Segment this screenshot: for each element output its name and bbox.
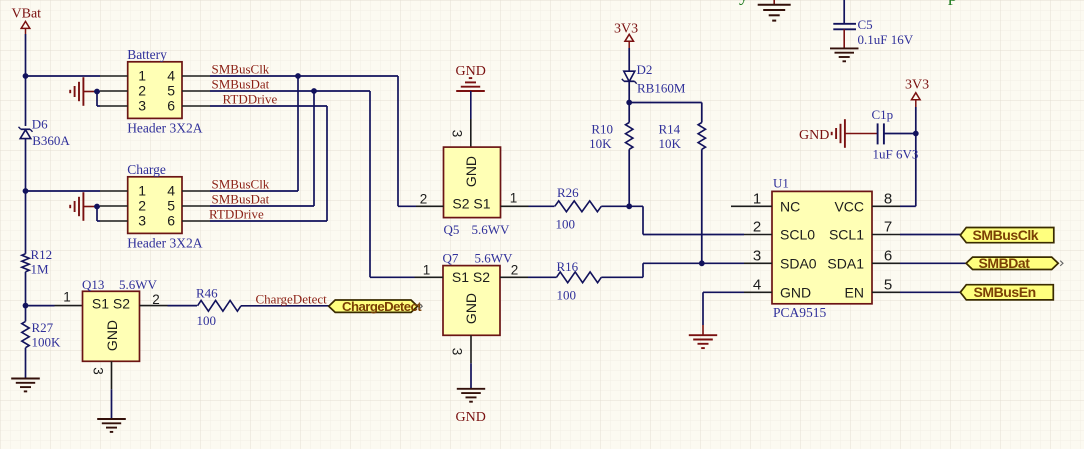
svg-text:R26: R26: [557, 185, 579, 200]
svg-text:8: 8: [884, 191, 892, 208]
svg-text:100: 100: [197, 313, 217, 328]
svg-text:100: 100: [556, 217, 576, 232]
wire R10 to R26 line: [628, 149, 630, 206]
junction rail/Q13: [23, 303, 29, 309]
resistor R27 100K: [22, 320, 61, 350]
svg-text:PCA9515: PCA9515: [773, 305, 827, 320]
wire gnd to Charge pin3: [97, 207, 100, 222]
wire C5 to ground: [843, 29, 845, 48]
svg-text:SMBusClk: SMBusClk: [973, 227, 1039, 243]
port ChargeDetect: [329, 299, 423, 314]
svg-text:5: 5: [167, 83, 175, 99]
svg-text:3: 3: [753, 248, 761, 265]
U1 pin1 stub (NC): [731, 205, 772, 207]
svg-text:5.6WV: 5.6WV: [475, 251, 514, 266]
svg-text:2: 2: [138, 83, 146, 99]
svg-text:EN: EN: [845, 284, 864, 300]
svg-text:1: 1: [423, 263, 431, 278]
resistor R12 1M: [22, 247, 52, 277]
junction rail/Battery: [23, 73, 29, 79]
svg-text:2: 2: [753, 219, 761, 236]
svg-text:R27: R27: [32, 320, 54, 335]
wire R46 to port: [241, 305, 329, 307]
svg-text:3: 3: [450, 348, 465, 356]
svg-text:R46: R46: [196, 286, 218, 301]
svg-text:GND: GND: [463, 156, 479, 187]
junction SMBusDat branch: [311, 88, 317, 94]
U1 pin6 stub: [872, 262, 900, 264]
wire VBat to Battery pin1: [26, 75, 101, 77]
resistor R26 100: [555, 185, 602, 232]
ground symbol at Charge pin2/3: [70, 192, 94, 221]
svg-text:C5: C5: [858, 17, 873, 32]
ground under R27: [11, 379, 40, 392]
svg-text:2: 2: [420, 192, 428, 207]
svg-text:ChargeDetect: ChargeDetect: [342, 299, 422, 314]
svg-text:Header 3X2A: Header 3X2A: [127, 120, 203, 135]
junction D2/R10/R14: [626, 100, 632, 106]
wire SMBusClk to Q5 pin2: [398, 76, 416, 206]
svg-text:SMBusClk: SMBusClk: [212, 177, 270, 192]
U1 pin4 stub: [744, 291, 772, 293]
svg-text:4: 4: [753, 277, 761, 294]
svg-text:SCL0: SCL0: [780, 227, 815, 243]
svg-text:y: y: [739, 0, 749, 6]
junction rail/Charge: [23, 188, 29, 194]
resistor R14 10K: [659, 122, 706, 152]
power port GND above Q5: [456, 64, 486, 91]
Q7 pin2 stub: [500, 276, 528, 278]
wire net RTDDrive (Battery): [210, 105, 327, 107]
wire Q13 pin2 to R46: [168, 305, 198, 307]
wire rail to ground: [25, 348, 27, 379]
ground under C5: [830, 48, 859, 61]
svg-text:100K: 100K: [32, 335, 62, 350]
Q5 pin2 stub: [416, 205, 444, 207]
junction R14/SDA0: [699, 260, 705, 266]
power port GND at C1p: [799, 119, 878, 148]
resistor R46 100: [196, 286, 241, 329]
svg-text:S2 S1: S2 S1: [452, 196, 490, 212]
U1 pin8 stub: [872, 205, 900, 207]
U1 pin2 stub: [744, 234, 772, 236]
svg-text:5: 5: [884, 277, 892, 294]
ground symbol at Battery pin2/3: [70, 77, 94, 106]
wire pin5 to port: [900, 291, 960, 293]
wire junction to R14 top: [629, 103, 702, 123]
svg-text:SDA1: SDA1: [827, 255, 864, 271]
svg-text:RB160M: RB160M: [637, 81, 686, 96]
wire SMBusDat vertical branch: [313, 91, 315, 206]
svg-text:B360A: B360A: [32, 133, 70, 148]
junction C1p/VCC: [913, 131, 919, 137]
resistor R10 10K: [589, 122, 633, 152]
svg-text:7: 7: [884, 219, 892, 236]
svg-text:SMBusEn: SMBusEn: [974, 284, 1036, 300]
wire rail to Charge pin1: [26, 190, 101, 192]
wire net SMBusClk (Battery): [210, 75, 398, 77]
wire SMBusDat to Q7 pin1: [370, 91, 415, 277]
svg-text:3: 3: [138, 213, 146, 229]
connector Battery Header 3X2A: [100, 47, 210, 136]
IC U1 PCA9515: [772, 176, 872, 320]
wire Q7 pin2 to R16: [528, 276, 557, 278]
svg-text:Charge: Charge: [127, 162, 166, 177]
svg-text:R10: R10: [591, 122, 613, 137]
svg-text:1: 1: [138, 68, 146, 84]
Q5 pin1 stub: [501, 205, 529, 207]
svg-text:SDA0: SDA0: [780, 255, 817, 271]
transistor Q13 5.6WV: [82, 277, 158, 362]
U1 pin5 stub: [872, 291, 900, 293]
transistor Q7 5.6WV: [443, 251, 514, 336]
wire net SMBusClk (Charge): [210, 190, 298, 192]
wire rail to Q13 pin1: [26, 305, 55, 307]
ground under Q13: [97, 419, 126, 432]
svg-text:R12: R12: [31, 247, 53, 262]
svg-text:3V3: 3V3: [905, 78, 929, 93]
svg-text:S1 S2: S1 S2: [92, 296, 130, 312]
svg-text:SMBusDat: SMBusDat: [212, 77, 270, 92]
connector Charge Header 3X2A: [100, 162, 210, 251]
wire VBat rail top: [25, 34, 27, 126]
wire gnd to Battery pin3: [97, 92, 100, 107]
wire VBat rail middle: [25, 139, 27, 254]
svg-text:5.6WV: 5.6WV: [119, 277, 158, 292]
svg-text:1uF 6V3: 1uF 6V3: [873, 147, 919, 162]
svg-text:U1: U1: [773, 176, 789, 191]
wire gnd to Charge pin2: [94, 206, 100, 208]
svg-text:4: 4: [167, 68, 175, 84]
ground top middle: [758, 0, 791, 21]
svg-text:R14: R14: [659, 122, 681, 137]
U1 pin3 stub: [744, 262, 772, 264]
wire net SMBusDat (Battery): [210, 90, 370, 92]
svg-text:RTDDrive: RTDDrive: [209, 207, 264, 222]
svg-text:R16: R16: [557, 259, 579, 274]
svg-text:SMBDat: SMBDat: [979, 255, 1031, 271]
ground at U1 pin4: [689, 335, 717, 348]
wire gnd to Battery pin2: [94, 91, 100, 93]
wire C1p to junction: [884, 133, 916, 135]
Q7 pin1 stub: [415, 276, 444, 278]
svg-text:1: 1: [510, 191, 518, 206]
svg-text:1: 1: [63, 290, 71, 305]
svg-text:SMBusClk: SMBusClk: [212, 62, 270, 77]
wire D2 to junction: [628, 81, 630, 122]
svg-text:Q13: Q13: [82, 277, 104, 292]
U1 pin7 stub: [872, 234, 900, 236]
Q7 pin3 stub: [470, 335, 472, 363]
svg-text:100: 100: [557, 288, 577, 303]
svg-text:GND: GND: [463, 293, 479, 324]
wire R14 to SDA0 line: [701, 149, 703, 263]
svg-text:Header 3X2A: Header 3X2A: [127, 235, 203, 250]
svg-text:ChargeDetect: ChargeDetect: [256, 292, 328, 307]
svg-text:2: 2: [511, 263, 519, 278]
svg-text:SCL1: SCL1: [829, 227, 864, 243]
port SMBusClk: [960, 227, 1054, 243]
svg-text:C1p: C1p: [872, 107, 894, 122]
svg-text:10K: 10K: [589, 136, 612, 151]
junction SMBusClk branch: [295, 73, 301, 79]
resistor R16 100: [557, 259, 602, 303]
Q5 pin3 wire: [470, 91, 472, 119]
port SMBusEn: [960, 284, 1053, 300]
wire R26 to SCL0: [601, 206, 744, 234]
svg-text:S1 S2: S1 S2: [452, 269, 490, 285]
wire Q5 pin1 to R26: [529, 205, 555, 207]
Q13 pin3 stub: [111, 361, 113, 389]
wire U1 pin4 GND: [703, 292, 744, 335]
svg-text:5.6WV: 5.6WV: [472, 222, 511, 237]
svg-text:1: 1: [753, 191, 761, 208]
svg-text:6: 6: [167, 98, 175, 114]
svg-text:2: 2: [138, 198, 146, 214]
svg-text:SMBusDat: SMBusDat: [212, 192, 270, 207]
svg-text:3: 3: [450, 130, 465, 138]
svg-text:GND: GND: [799, 128, 829, 143]
svg-text:10K: 10K: [659, 136, 682, 151]
svg-text:GND: GND: [104, 320, 120, 351]
wire pin7 to port: [900, 234, 960, 236]
ground under Q7: [457, 389, 485, 402]
Q13 pin2 stub: [140, 305, 168, 307]
svg-text:NC: NC: [780, 198, 800, 214]
capacitor C1p 1uF 6V3: [872, 107, 919, 162]
wire VCC to 3V3: [900, 107, 916, 206]
transistor Q5 5.6WV: [444, 147, 511, 237]
svg-text:D6: D6: [32, 117, 48, 132]
wire net SMBusDat (Charge): [210, 205, 314, 207]
svg-text:GND: GND: [456, 64, 486, 79]
diode D6 B360A: [19, 117, 71, 148]
svg-text:3: 3: [138, 98, 146, 114]
power port VBat: [12, 7, 42, 35]
power port 3V3 (left): [614, 22, 638, 49]
Q13 pin1 stub: [55, 305, 83, 307]
svg-text:RTDDrive: RTDDrive: [223, 92, 278, 107]
svg-text:D2: D2: [637, 62, 653, 77]
junction R26/R10: [626, 203, 632, 209]
svg-text:4: 4: [167, 183, 175, 199]
wire 3V3 to D2: [628, 48, 630, 72]
svg-text:GND: GND: [780, 284, 811, 300]
svg-text:5: 5: [167, 198, 175, 214]
svg-text:VBat: VBat: [12, 7, 42, 22]
svg-text:2: 2: [152, 292, 160, 307]
wire RTDDrive vertical branch: [326, 106, 328, 221]
svg-text:VCC: VCC: [834, 198, 864, 214]
svg-text:6: 6: [884, 248, 892, 265]
svg-text:Battery: Battery: [127, 47, 167, 62]
wire pin6 to port: [900, 262, 966, 264]
svg-text:1: 1: [138, 183, 146, 199]
svg-text:GND: GND: [456, 410, 486, 425]
junction gnd/Battery: [94, 89, 100, 95]
svg-text:3: 3: [91, 367, 106, 375]
port SMBDat: [966, 255, 1063, 271]
wire Q7 pin3 to ground: [470, 363, 472, 389]
svg-text:Q5: Q5: [444, 222, 460, 237]
power port 3V3 (right): [905, 78, 929, 108]
svg-text:p: p: [948, 0, 958, 6]
wire rail R12 to R27: [25, 272, 27, 322]
svg-text:0.1uF 16V: 0.1uF 16V: [858, 32, 914, 47]
wire net RTDDrive (Charge): [210, 220, 327, 222]
svg-text:1M: 1M: [31, 262, 50, 277]
svg-text:Q7: Q7: [443, 251, 459, 266]
Q5 pin3 stub: [470, 119, 472, 147]
diode D2 RB160M: [622, 62, 686, 96]
svg-text:6: 6: [167, 213, 175, 229]
wire Q13 pin3 to ground: [111, 389, 113, 419]
capacitor C5 0.1uF 16V: [833, 0, 913, 47]
wire SMBusClk vertical branch: [297, 76, 299, 191]
junction gnd/Charge: [94, 204, 100, 210]
wire R16 to SDA0: [601, 263, 744, 277]
svg-text:3V3: 3V3: [614, 22, 638, 37]
